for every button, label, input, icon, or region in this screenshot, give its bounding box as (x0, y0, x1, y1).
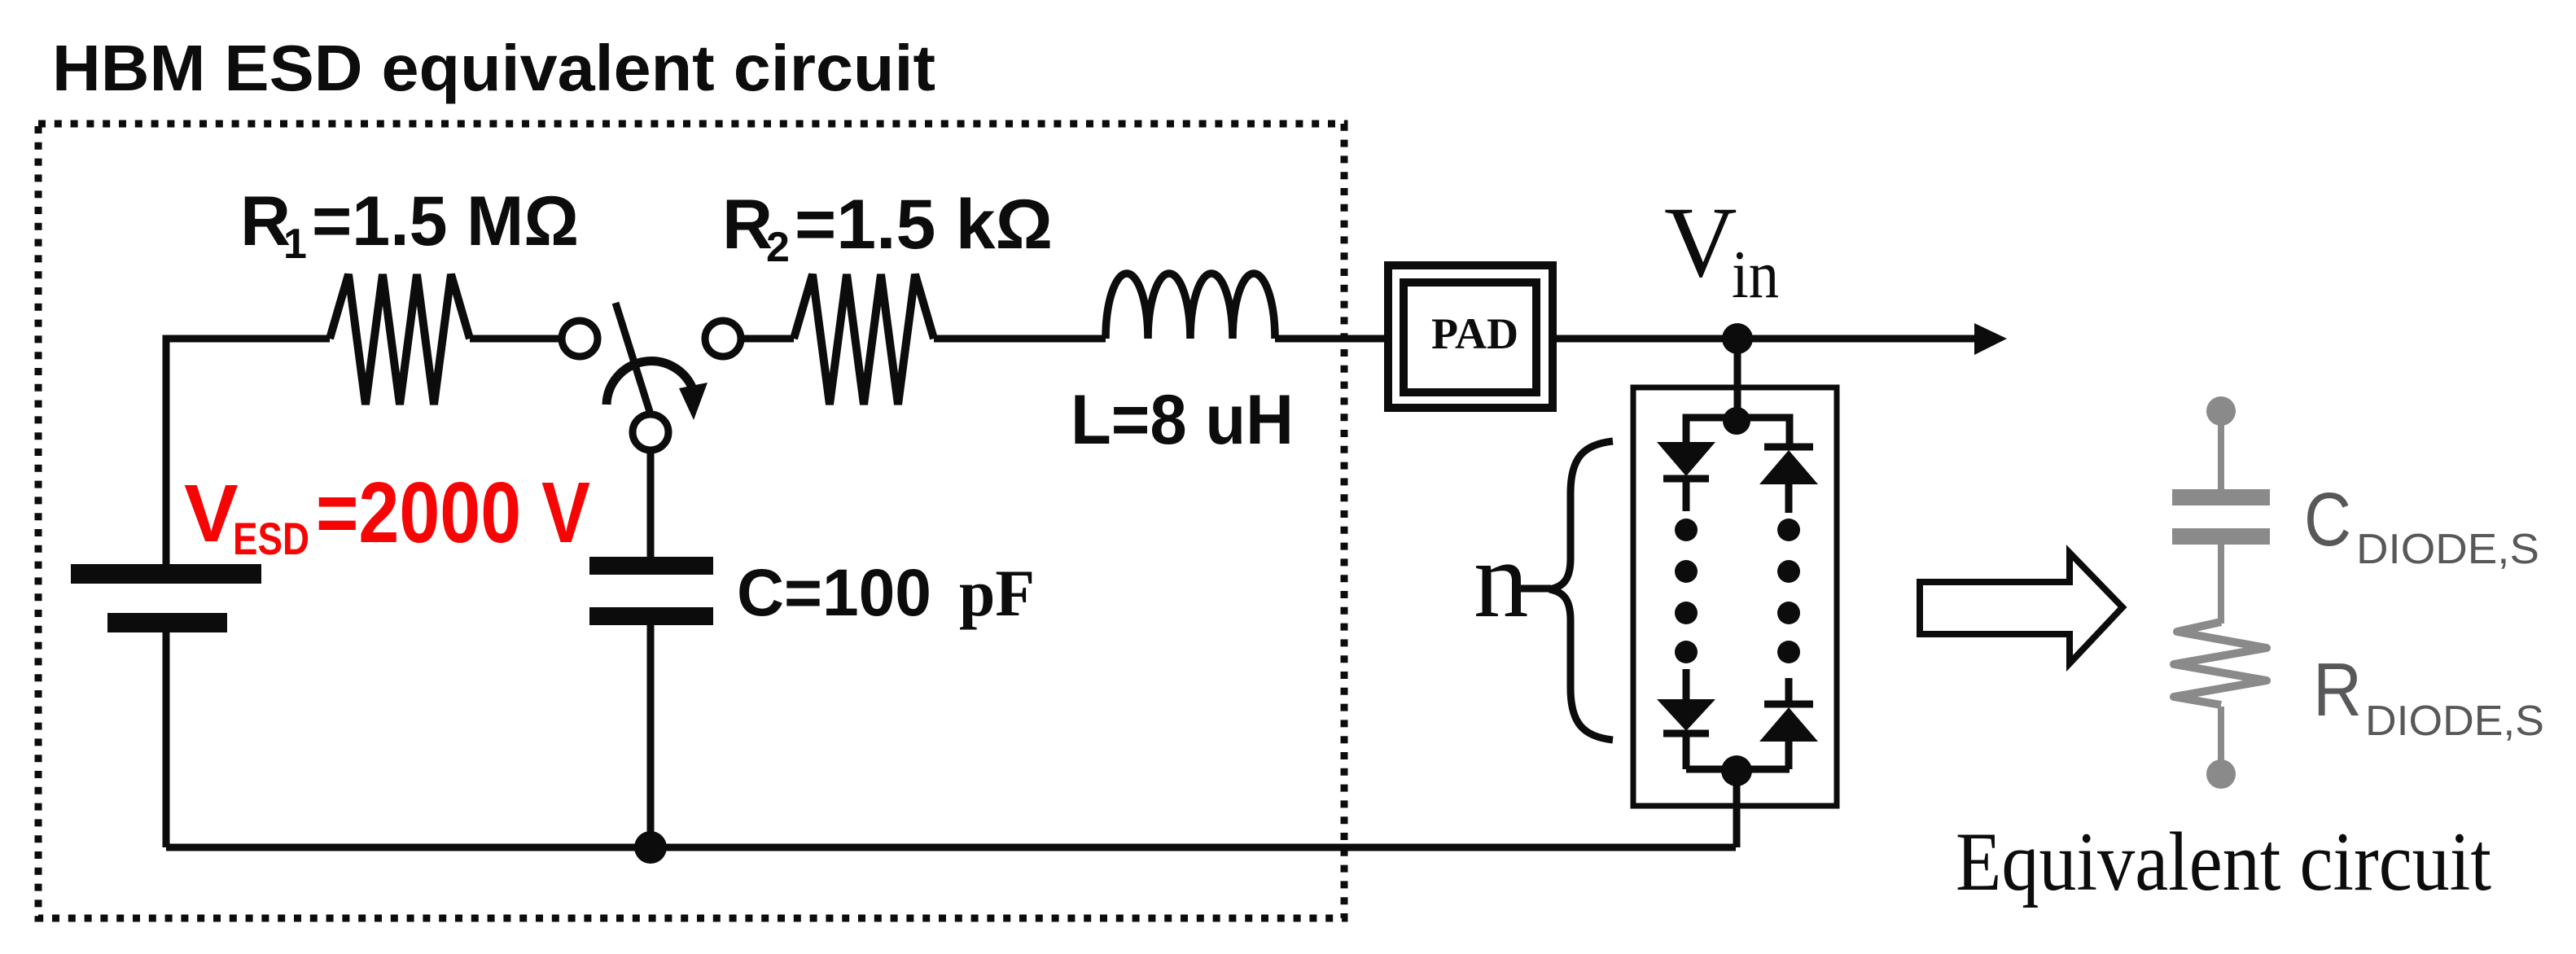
svg-text:C: C (2304, 477, 2351, 562)
battery VESD: bottom plate (short) (107, 613, 227, 632)
capacitor CDIODE,S top plate (2172, 489, 2270, 505)
svg-text:R: R (722, 186, 773, 264)
wire: top dot to capacitor CDIODE (2218, 411, 2224, 489)
top junction dot inside diode box (1723, 407, 1750, 435)
capacitor C: top plate (589, 557, 713, 575)
svg-text:=2000 V: =2000 V (316, 465, 590, 561)
resistor R1 (330, 274, 470, 405)
svg-text:in: in (1732, 237, 1779, 313)
switch blade (616, 303, 651, 414)
dots column left (1675, 519, 1698, 663)
ground rail wire (bottom) (166, 844, 1736, 851)
svg-text:Equivalent circuit: Equivalent circuit (1956, 816, 2491, 908)
svg-text:pF: pF (959, 556, 1035, 630)
svg-text:HBM ESD equivalent circuit: HBM ESD equivalent circuit (52, 32, 935, 104)
wire: resistor to bottom terminal dot (2218, 707, 2224, 774)
svg-text:V: V (1664, 186, 1737, 298)
svg-text:R: R (2313, 647, 2362, 732)
diode D3 (left bottom, anode up) (1683, 669, 1690, 699)
label R2=1.5 kOhm (722, 186, 1053, 271)
wire: PAD to output arrow (1553, 335, 1978, 343)
svg-text:V: V (184, 468, 239, 559)
wire: inductor to PAD (1275, 335, 1389, 343)
switch right contact circle (705, 321, 741, 357)
wire: top distribution bar (1686, 418, 1790, 447)
junction node dot on ground rail (634, 831, 667, 864)
wire: switch right contact to R2 (741, 335, 794, 343)
svg-text:L=8 uH: L=8 uH (1071, 381, 1294, 459)
svg-text:n: n (1474, 519, 1529, 641)
diode stack box (1633, 387, 1837, 806)
PAD box (double rectangle) (1388, 265, 1553, 408)
svg-text:=1.5 kΩ: =1.5 kΩ (795, 186, 1053, 264)
bottom terminal dot (2206, 759, 2236, 789)
brace for n diodes (1549, 441, 1613, 740)
wire: battery bottom plate down to ground rail (163, 632, 170, 847)
label VESD=2000 V (red) (184, 465, 590, 564)
svg-text:DIODE,S: DIODE,S (2356, 526, 2539, 573)
svg-text:=1.5 MΩ: =1.5 MΩ (312, 182, 579, 260)
wire: bottom collection bar (1686, 766, 1790, 773)
wire: R2 to inductor L (934, 335, 1106, 343)
bottom junction dot inside diode box (1721, 755, 1752, 786)
wire: switch pole down to capacitor C (647, 450, 655, 557)
switch pole contact circle (bottom) (633, 414, 668, 450)
wire: R1 to switch left contact (470, 335, 562, 343)
label R1=1.5 MOhm (240, 182, 579, 268)
capacitor CDIODE,S bottom plate (2172, 528, 2270, 545)
dotted boundary box of HBM ESD equivalent circuit (38, 124, 1344, 918)
diode D4 (right bottom, cathode up) (1785, 678, 1793, 704)
switch rotation arc arrow (607, 361, 693, 405)
battery VESD: top plate (long) (71, 564, 261, 584)
wire: Vin node down into diode stack box (1734, 339, 1741, 421)
wire: capacitor C to ground rail (647, 625, 655, 847)
dots column right (1777, 519, 1800, 663)
output arrowhead (1974, 323, 2007, 355)
resistor RDIODE,S (2174, 622, 2267, 705)
inductor L (1106, 274, 1275, 339)
big implication arrow (1920, 553, 2123, 663)
svg-text:1: 1 (283, 221, 307, 268)
svg-text:PAD: PAD (1431, 309, 1518, 358)
svg-text:DIODE,S: DIODE,S (2365, 698, 2544, 745)
svg-text:ESD: ESD (233, 513, 309, 564)
tick from n to brace (1521, 585, 1551, 593)
resistor R2 (794, 274, 934, 405)
wire: capacitor to resistor RDIODE (2218, 545, 2224, 624)
diode D1 (left top, anode up) (1657, 442, 1715, 476)
diode D2 (right top, cathode up) (1764, 444, 1813, 451)
wire: diode box bottom to ground rail (1733, 771, 1741, 847)
equivalent circuit (gray): top terminal dot (2206, 396, 2236, 426)
svg-text:C=100: C=100 (737, 556, 931, 630)
svg-text:2: 2 (766, 224, 790, 271)
capacitor C: bottom plate (589, 607, 713, 625)
switch left contact circle (562, 321, 598, 357)
wire: left vertical from R1 lead down to battery top (166, 339, 330, 564)
node Vin dot (1722, 323, 1753, 354)
